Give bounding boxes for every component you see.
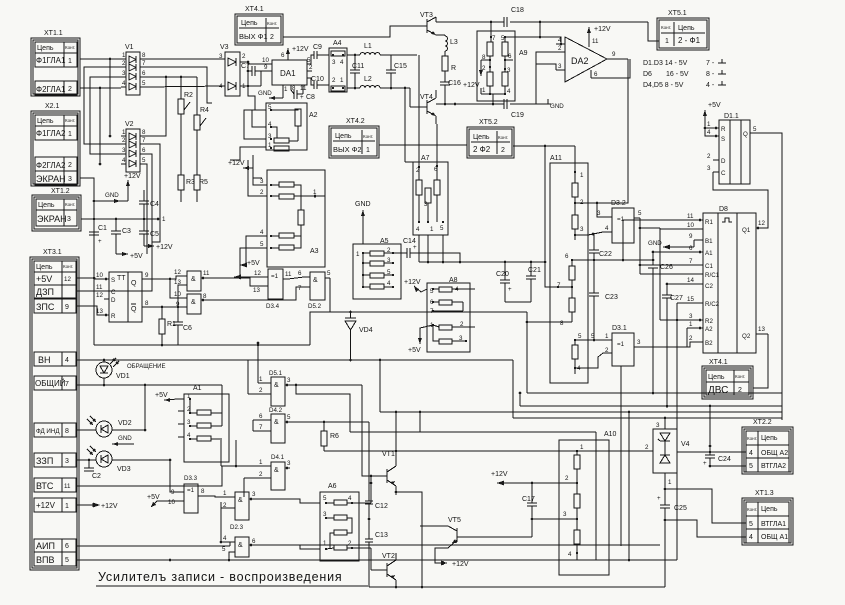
svg-text:14: 14 — [687, 277, 694, 284]
svg-text:&: & — [274, 419, 279, 426]
transistor VT4 — [410, 90, 436, 124]
svg-text:GND: GND — [258, 90, 272, 97]
svg-text:4: 4 — [65, 357, 69, 364]
capacitor C22 — [589, 234, 612, 261]
svg-text:Q: Q — [743, 131, 748, 138]
zener pair V4 — [645, 417, 690, 491]
svg-text:1: 1 — [707, 121, 711, 128]
resistor R5 — [194, 175, 208, 202]
diode array V2 — [121, 121, 146, 172]
capacitor C25 — [657, 489, 687, 587]
resistor block A1 — [178, 385, 229, 462]
svg-text:6: 6 — [594, 71, 598, 78]
svg-text:Цепь: Цепь — [473, 134, 490, 141]
wire V1 pin3 to V2 pin3 — [90, 77, 121, 154]
svg-text:XT5.2: XT5.2 — [479, 119, 498, 126]
gate D5.1 — [259, 370, 372, 477]
svg-text:5: 5 — [749, 521, 753, 528]
capacitor C3 — [111, 219, 131, 254]
svg-text:1: 1 — [689, 321, 693, 328]
transistor VT3 — [412, 12, 436, 35]
svg-text:10: 10 — [96, 272, 103, 279]
wire ZPS row to TT R — [76, 306, 104, 315]
wire V2 pin5 — [145, 164, 147, 254]
capacitor C18 — [504, 7, 524, 27]
svg-text:S: S — [111, 277, 115, 284]
svg-text:4: 4 — [707, 129, 711, 136]
svg-text:Цепь: Цепь — [36, 264, 53, 271]
capacitor C11 — [350, 54, 364, 90]
svg-text:4: 4 — [749, 534, 753, 541]
resistor R — [442, 51, 456, 82]
gate D2.4 — [220, 535, 256, 561]
svg-text:3: 3 — [689, 313, 693, 320]
svg-text:Цепь: Цепь — [708, 374, 725, 381]
svg-text:C17: C17 — [522, 496, 535, 503]
svg-text:XT1.3: XT1.3 — [755, 490, 774, 497]
svg-text:XT4.1: XT4.1 — [245, 6, 264, 13]
svg-text:=1: =1 — [187, 487, 195, 494]
svg-text:2: 2 — [270, 34, 274, 41]
svg-text:6: 6 — [281, 52, 285, 59]
wire mid vertical x629 — [628, 411, 631, 562]
svg-text:6: 6 — [142, 147, 146, 154]
gate D4.1 — [259, 454, 291, 490]
svg-text:VT3: VT3 — [420, 12, 433, 19]
diode VD4 — [345, 312, 373, 340]
svg-text:+: + — [300, 94, 304, 101]
connector XT4.2 VYH F2 — [329, 118, 575, 287]
wire XT1.1 pin1 to V1 — [80, 58, 121, 138]
wire +12V row — [76, 503, 118, 511]
svg-text:2: 2 — [348, 540, 352, 547]
wire Q1 to D1.1 C — [713, 172, 768, 228]
connector XT4.1 VYH F1 — [235, 6, 283, 45]
capacitor C16 — [440, 80, 461, 105]
gate D3.1 — [588, 325, 703, 368]
bus y418 — [513, 360, 782, 418]
svg-text:V3: V3 — [220, 44, 229, 51]
flip-flop D1.1 — [707, 113, 782, 420]
svg-text:TT: TT — [117, 275, 126, 282]
resistor R6 — [321, 421, 339, 451]
svg-text:D4.1: D4.1 — [271, 454, 285, 461]
svg-text:4: 4 — [416, 226, 420, 233]
wire AIP vertical — [620, 366, 622, 546]
svg-text:13: 13 — [253, 287, 260, 294]
svg-text:Ф2ГЛА1: Ф2ГЛА1 — [36, 85, 66, 94]
wire A9 bottom to VT4 row — [492, 94, 495, 105]
transistor VT2 — [371, 548, 396, 587]
svg-text:3: 3 — [580, 226, 584, 233]
capacitor C20 — [496, 261, 512, 302]
gate D3.2 — [588, 200, 660, 274]
svg-text:C5: C5 — [150, 231, 159, 238]
svg-text:ВН: ВН — [38, 355, 51, 365]
connector X2.1 — [31, 103, 80, 186]
connector XT3.1 — [30, 249, 79, 570]
svg-text:3: 3 — [122, 70, 126, 77]
op-amp DA2 — [556, 26, 628, 82]
svg-text:16 - 5V: 16 - 5V — [666, 71, 689, 78]
connector XT5.2 — [467, 119, 514, 158]
gate D2.2 — [174, 291, 207, 314]
svg-text:X2.1: X2.1 — [45, 103, 60, 110]
svg-text:6: 6 — [565, 253, 569, 260]
inductor L3 — [436, 35, 458, 51]
svg-text:A2: A2 — [309, 112, 318, 119]
svg-text:ОБРАЩЕНИЕ: ОБРАЩЕНИЕ — [127, 364, 165, 370]
svg-text:C9: C9 — [313, 44, 322, 51]
svg-text:Конт.: Конт. — [65, 118, 75, 123]
svg-text:6: 6 — [689, 245, 693, 252]
gate D4.2 — [259, 407, 369, 483]
wire L-rail to VT4 base — [404, 55, 419, 167]
svg-text:Конт.: Конт. — [63, 264, 73, 269]
svg-text:11: 11 — [203, 270, 210, 277]
capacitor C9 — [307, 44, 329, 64]
svg-text:&: & — [238, 542, 243, 549]
svg-text:Ф2ГЛА2: Ф2ГЛА2 — [36, 161, 66, 170]
svg-text:15: 15 — [687, 296, 694, 303]
svg-text:R6: R6 — [330, 433, 339, 440]
+12V arrow C17 — [491, 471, 577, 486]
svg-text:&: & — [191, 299, 196, 306]
bus y451 — [324, 450, 653, 452]
svg-text:8: 8 — [142, 129, 146, 136]
svg-text:2: 2 — [501, 147, 505, 154]
capacitor C4 — [139, 190, 159, 219]
svg-text:1: 1 — [605, 333, 609, 340]
svg-text:Q2: Q2 — [742, 333, 751, 340]
svg-text:9: 9 — [145, 272, 149, 279]
svg-text:D6: D6 — [643, 71, 652, 78]
svg-text:=1: =1 — [271, 273, 279, 280]
svg-text:XT5.1: XT5.1 — [668, 10, 687, 17]
svg-text:R: R — [451, 65, 456, 72]
svg-text:ВТС: ВТС — [36, 481, 54, 491]
svg-text:A1: A1 — [193, 385, 202, 392]
svg-text:7: 7 — [142, 60, 146, 67]
svg-text:5: 5 — [260, 241, 264, 248]
svg-text:10: 10 — [687, 222, 694, 229]
svg-text:ОБЩИЙ: ОБЩИЙ — [35, 379, 66, 388]
svg-text:C13: C13 — [375, 532, 388, 539]
svg-text:+5V: +5V — [708, 102, 721, 109]
svg-text:9: 9 — [65, 304, 69, 311]
svg-text:7 -: 7 - — [706, 60, 715, 67]
wire VD4 bottom — [349, 340, 352, 361]
connector XT4.1 DVS — [702, 359, 753, 399]
svg-text:+: + — [508, 286, 512, 293]
monostable D8 — [687, 206, 768, 353]
svg-text:5: 5 — [753, 126, 757, 133]
svg-text:2 - Ф1: 2 - Ф1 — [678, 36, 701, 45]
svg-text:1: 1 — [68, 131, 72, 138]
+12V arrow right — [144, 244, 173, 251]
wire A10 loop top — [350, 411, 596, 432]
svg-text:+5V: +5V — [147, 494, 160, 501]
svg-text:D5.2: D5.2 — [308, 303, 322, 310]
svg-text:R2: R2 — [705, 318, 713, 325]
svg-text:+5V: +5V — [36, 274, 52, 284]
svg-text:5: 5 — [440, 225, 444, 232]
svg-text:R/C2: R/C2 — [705, 301, 720, 308]
svg-text:C22: C22 — [599, 251, 612, 258]
svg-text:D3.2: D3.2 — [611, 200, 626, 207]
capacitor C1 — [89, 225, 107, 245]
svg-text:+5V: +5V — [408, 347, 421, 354]
svg-text:2: 2 — [309, 64, 313, 71]
svg-text:5: 5 — [323, 495, 327, 502]
inductor L1 — [360, 43, 417, 55]
wire V1 pin2 to V2 pin2 — [84, 67, 121, 144]
svg-text:12: 12 — [254, 270, 261, 277]
GND arrow left — [93, 192, 120, 203]
svg-text:VD1: VD1 — [116, 373, 130, 380]
svg-text:+: + — [98, 238, 102, 245]
wire V2 pin7 — [145, 144, 160, 242]
svg-text:3: 3 — [563, 511, 567, 518]
svg-text:S: S — [721, 136, 725, 143]
wire V1 pin6 to R4 — [145, 76, 197, 79]
transistor VT1 — [371, 451, 397, 503]
GND arrow A5 — [355, 201, 371, 244]
svg-text:D1.1: D1.1 — [724, 113, 739, 120]
wire V2 pin8 up — [145, 77, 166, 136]
wire node 312 row — [330, 311, 527, 393]
wire +5V row to TT — [76, 277, 95, 280]
wire C25 to XT1.3 — [665, 489, 746, 537]
svg-text:2: 2 — [68, 86, 72, 93]
svg-text:3: 3 — [219, 53, 223, 60]
svg-text:ЗПС: ЗПС — [36, 302, 55, 312]
svg-text:Конт.: Конт. — [661, 25, 671, 30]
svg-text:D3.3: D3.3 — [184, 475, 198, 482]
svg-text:D4.2: D4.2 — [269, 407, 283, 414]
svg-text:+5V: +5V — [155, 392, 168, 399]
svg-text:XT1.2: XT1.2 — [51, 188, 70, 195]
resistor block A6 — [320, 483, 371, 561]
svg-text:C6: C6 — [183, 325, 192, 332]
svg-text:Ф1ГЛА1: Ф1ГЛА1 — [36, 56, 66, 65]
wire top rail C18 — [436, 21, 648, 24]
svg-text:1: 1 — [323, 540, 327, 547]
svg-text:ЭКРАН: ЭКРАН — [36, 174, 66, 184]
svg-text:4: 4 — [507, 88, 511, 95]
svg-text:C4: C4 — [150, 201, 159, 208]
+12V arrow A8 — [404, 279, 427, 292]
resistor block A11 — [526, 146, 588, 383]
svg-text:3: 3 — [558, 63, 562, 70]
svg-text:11: 11 — [64, 483, 71, 490]
svg-text:3: 3 — [597, 210, 601, 217]
svg-text:3: 3 — [332, 59, 336, 66]
svg-text:C12: C12 — [375, 503, 388, 510]
svg-text:1: 1 — [482, 87, 486, 94]
svg-text:Цепь: Цепь — [335, 133, 352, 140]
svg-text:12: 12 — [758, 220, 765, 227]
wire VPV row — [76, 559, 677, 562]
svg-text:5: 5 — [287, 414, 291, 421]
svg-text:D3.1: D3.1 — [612, 325, 627, 332]
svg-text:10: 10 — [168, 499, 175, 506]
wire OBSHIY row — [76, 384, 222, 413]
svg-text:C18: C18 — [511, 7, 524, 14]
svg-text:C25: C25 — [674, 505, 687, 512]
GND arrow DA1 — [258, 90, 283, 100]
svg-text:B1: B1 — [705, 238, 713, 245]
resistor R3 — [178, 175, 195, 202]
svg-text:C24: C24 — [718, 456, 731, 463]
svg-text:5: 5 — [307, 57, 311, 64]
svg-text:1: 1 — [356, 251, 360, 258]
svg-text:5: 5 — [65, 557, 69, 564]
svg-text:D: D — [721, 158, 726, 165]
svg-text:8 -: 8 - — [706, 71, 715, 78]
svg-text:Усилителъ записи - воспроиз: Усилителъ записи - воспроизведения — [98, 570, 342, 584]
connector XT1.3 — [742, 490, 793, 545]
svg-text:R/C1: R/C1 — [705, 272, 720, 279]
svg-text:6: 6 — [259, 413, 263, 420]
svg-text:1: 1 — [223, 490, 227, 497]
svg-text:C16: C16 — [448, 80, 461, 87]
svg-text:1: 1 — [340, 77, 344, 84]
svg-text:GND: GND — [355, 201, 371, 208]
svg-text:XT1.1: XT1.1 — [44, 30, 63, 37]
svg-text:C8: C8 — [306, 94, 315, 101]
svg-text:3: 3 — [656, 422, 660, 429]
svg-text:2: 2 — [122, 137, 126, 144]
svg-text:C15: C15 — [394, 63, 407, 70]
svg-text:5: 5 — [749, 463, 753, 470]
svg-text:+12V: +12V — [101, 503, 118, 510]
GND arrow D8 — [648, 240, 694, 250]
bus y393 — [527, 392, 782, 395]
svg-text:3: 3 — [637, 339, 641, 346]
svg-text:3: 3 — [122, 147, 126, 154]
svg-text:+12V: +12V — [228, 160, 245, 167]
svg-text:8: 8 — [145, 300, 149, 307]
capacitor C6 — [173, 307, 192, 345]
svg-text:2: 2 — [605, 347, 609, 354]
svg-text:Конт.: Конт. — [735, 374, 745, 379]
svg-text:4: 4 — [340, 59, 344, 66]
svg-text:ФД ИНД: ФД ИНД — [36, 428, 60, 435]
svg-text:Цепь: Цепь — [37, 45, 54, 52]
wire D8 left pins — [623, 220, 694, 560]
svg-text:Цепь: Цепь — [678, 25, 695, 32]
svg-text:7: 7 — [65, 381, 69, 388]
wire DZP row to TT C — [76, 290, 104, 292]
svg-text:1: 1 — [366, 147, 370, 154]
svg-text:+: + — [703, 460, 707, 467]
capacitor C19 — [504, 99, 524, 119]
svg-text:2: 2 — [707, 153, 711, 160]
svg-text:11: 11 — [687, 213, 694, 220]
svg-text:4: 4 — [122, 157, 126, 164]
svg-text:A4: A4 — [333, 40, 342, 47]
wire D2.3 to A6 — [254, 499, 320, 549]
svg-text:L3: L3 — [450, 39, 458, 46]
svg-text:Конт.: Конт. — [65, 202, 75, 207]
svg-text:5: 5 — [578, 333, 582, 340]
svg-text:1: 1 — [665, 38, 669, 45]
svg-text:Q1: Q1 — [742, 227, 751, 234]
svg-text:D4,D5 8 - 5V: D4,D5 8 - 5V — [643, 82, 684, 89]
wire V1 pin8 to V3 — [145, 58, 225, 60]
GND arrow VD2 — [112, 435, 134, 446]
svg-text:2: 2 — [689, 335, 693, 342]
svg-text:Конт.: Конт. — [747, 507, 757, 512]
wire D8 pin3 — [677, 319, 694, 321]
svg-text:1: 1 — [68, 58, 72, 65]
bus y406 — [519, 392, 782, 430]
wire VTS row — [76, 466, 222, 486]
wire DA1 inputs — [247, 61, 261, 86]
title — [96, 570, 368, 586]
diode pair V3 — [219, 44, 248, 96]
svg-text:&: & — [313, 277, 318, 284]
svg-text:A1: A1 — [705, 250, 713, 257]
svg-text:C2: C2 — [92, 473, 101, 480]
svg-text:XT4.2: XT4.2 — [346, 118, 365, 125]
svg-text:ОБЩ А2: ОБЩ А2 — [761, 450, 788, 457]
svg-text:7: 7 — [142, 137, 146, 144]
svg-text:6: 6 — [65, 543, 69, 550]
power note text — [643, 59, 726, 89]
svg-text:=1: =1 — [617, 341, 625, 348]
+5V arrow — [116, 252, 143, 260]
svg-text:12: 12 — [174, 269, 181, 276]
svg-text:1: 1 — [122, 129, 126, 136]
svg-text:ВТГЛА2: ВТГЛА2 — [761, 463, 786, 470]
svg-text:3: 3 — [507, 67, 511, 74]
svg-text:DA2: DA2 — [571, 56, 589, 66]
gate D2.3 — [203, 490, 256, 543]
svg-text:&: & — [238, 497, 243, 504]
resistor R1 — [159, 307, 176, 345]
wire Q2 to DVS — [753, 334, 768, 388]
wire ECRAN X2.1 down — [80, 178, 104, 279]
svg-text:R2: R2 — [184, 92, 193, 99]
svg-text:ОБЩ А1: ОБЩ А1 — [761, 534, 788, 541]
+5V arrow D3.3 — [147, 494, 160, 507]
svg-text:4: 4 — [223, 535, 227, 542]
wire TT Qb to gate — [147, 285, 182, 308]
svg-text:C2: C2 — [705, 283, 713, 290]
svg-text:L1: L1 — [364, 43, 372, 50]
svg-text:3: 3 — [67, 216, 71, 223]
photodiode VD3 — [76, 446, 171, 473]
photodiode VD2 — [76, 385, 146, 437]
resistor R2 — [178, 77, 193, 175]
resistor block A3 — [260, 170, 325, 267]
svg-text:5: 5 — [222, 546, 226, 553]
inductor L2 — [360, 76, 410, 88]
svg-text:ЗЗП: ЗЗП — [36, 456, 53, 466]
gate D2.1 — [174, 269, 210, 291]
svg-text:Конт.: Конт. — [363, 134, 373, 139]
svg-text:6: 6 — [252, 538, 256, 545]
svg-text:A11: A11 — [550, 155, 562, 162]
svg-text:3: 3 — [287, 460, 291, 467]
svg-text:+12V: +12V — [404, 279, 421, 286]
svg-text:+12V: +12V — [452, 561, 469, 568]
svg-text:7: 7 — [259, 424, 263, 431]
wire A7 bottoms to rail262 — [419, 235, 461, 263]
svg-text:5: 5 — [142, 157, 146, 164]
